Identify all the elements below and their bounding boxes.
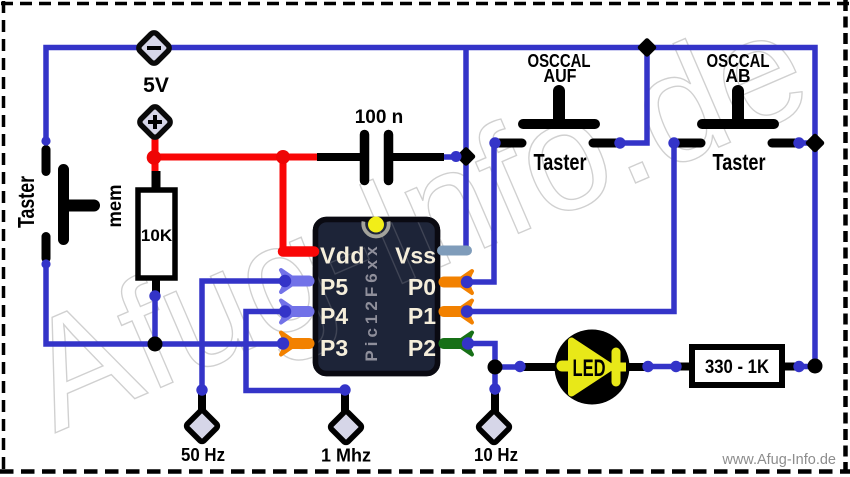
resistor R2 330-1K <box>676 347 801 385</box>
svg-text:330 - 1K: 330 - 1K <box>705 357 769 378</box>
wire end dot at pin P2 <box>462 337 474 349</box>
svg-text:mem: mem <box>105 185 126 228</box>
wire end dot at taster-mem top <box>41 136 50 145</box>
junction at 10K/P3/taster node <box>148 337 163 352</box>
wire end dot at pin P5 <box>279 275 291 287</box>
wire P2 to 10Hz node <box>468 344 495 391</box>
junction red at Vdd branch <box>276 150 290 164</box>
wire capacitor/Vss vertical <box>463 48 469 253</box>
pin stub Vss <box>442 246 467 256</box>
junction diamond right drop at OSCCAL AB <box>805 133 826 154</box>
node 1 Mhz connector <box>321 389 371 466</box>
svg-text:Taster: Taster <box>13 176 39 228</box>
LED D1 <box>521 330 650 405</box>
wire end dot at pin P0 <box>461 276 473 288</box>
svg-text:LED: LED <box>573 355 606 382</box>
resistor R1 10K <box>138 171 175 297</box>
wire node to LED anode <box>495 364 520 370</box>
wire taster-mem bottom to P3 <box>46 264 282 344</box>
pin arrow P0 <box>444 271 472 293</box>
pin arrow P1 <box>444 301 472 323</box>
IC U1 PIC12F6xx chip body <box>316 220 438 374</box>
wire end dot at AUF right contact <box>614 137 625 148</box>
wire R2 to right drop <box>799 364 815 370</box>
pin arrow P4 <box>281 301 309 323</box>
svg-text:P2: P2 <box>408 335 436 361</box>
svg-text:Pic12F6xx: Pic12F6xx <box>362 242 381 361</box>
wire end dot at pin P1 <box>461 305 473 317</box>
wire OSCCAL AB right contact to right drop <box>799 140 815 146</box>
wire top supply rail with left and right drops <box>46 48 815 367</box>
junction at R2/right drop <box>808 359 823 374</box>
wire end dot at LED anode <box>514 361 525 372</box>
wire end dot at 1Mhz node <box>339 384 350 395</box>
wire OSCCAL AUF right contact to rail junction <box>620 48 647 144</box>
wire P1 to OSCCAL AB left contact <box>466 143 674 312</box>
capacitor C1 100n <box>317 135 444 181</box>
node 10 Hz connector <box>474 387 518 465</box>
wire end dot at AB left contact <box>668 137 679 148</box>
wire P0 to OSCCAL AUF left contact <box>466 143 494 282</box>
wire end dot at AB right contact <box>793 137 804 148</box>
wire end dot at pin P3 <box>277 337 289 349</box>
switch S2 OSCCAL AUF taster <box>498 91 617 143</box>
svg-text:Vdd: Vdd <box>320 243 365 269</box>
pin arrow P5 <box>281 270 309 292</box>
switch S1 mem taster (left, vertical) <box>46 150 94 259</box>
junction red at 10K top <box>147 150 162 165</box>
wire 10K bottom <box>152 294 158 344</box>
svg-text:www.Afug-Info.de: www.Afug-Info.de <box>721 452 836 468</box>
wire end dot at 10Hz node <box>489 383 500 394</box>
wire end dot at taster-mem bottom <box>41 259 50 268</box>
wire end dot at R2 left <box>670 361 681 372</box>
wire end dot at AUF left contact <box>489 137 500 148</box>
svg-text:P3: P3 <box>320 335 348 361</box>
wire P5 to 50Hz node <box>202 281 287 390</box>
svg-text:1 Mhz: 1 Mhz <box>321 446 371 466</box>
svg-text:P4: P4 <box>320 303 348 329</box>
junction diamond at capacitor/Vss <box>456 146 477 167</box>
svg-text:Vss: Vss <box>395 243 436 269</box>
node 50 Hz connector <box>181 388 225 465</box>
wire capacitor right lead blue <box>443 154 462 160</box>
wire end dot at R1 bottom <box>149 290 160 301</box>
wire end dot at pin P4 <box>279 305 291 317</box>
switch S3 OSCCAL AB taster <box>677 91 796 143</box>
pin1 notch ring <box>363 222 388 237</box>
svg-text:10K: 10K <box>141 226 173 245</box>
wire end dot at 50Hz node <box>196 384 207 395</box>
svg-text:5V: 5V <box>143 74 169 97</box>
wire end dot at LED cathode <box>642 361 653 372</box>
svg-text:P1: P1 <box>408 303 436 329</box>
pin1 yellow index dot <box>368 217 384 233</box>
IC U1 chip body overlay <box>316 220 438 374</box>
svg-text:P0: P0 <box>408 274 436 300</box>
wire end dot at C1 right lead <box>451 151 462 162</box>
svg-text:Taster: Taster <box>534 149 587 175</box>
junction diamond on top rail <box>637 37 658 58</box>
supply symbol plus 5V <box>138 105 172 139</box>
supply symbol minus 5V <box>137 31 171 65</box>
svg-text:10 Hz: 10 Hz <box>474 445 518 465</box>
junction at P2/10Hz/LED node <box>488 360 503 375</box>
wire end dot at R2 right <box>793 361 804 372</box>
pin arrow P3 <box>281 333 309 355</box>
wire P4 to 1Mhz node <box>246 312 345 391</box>
svg-text:Taster: Taster <box>713 149 766 175</box>
wire 5V red supply net <box>152 132 317 252</box>
wire LED cathode to R2 <box>648 364 676 370</box>
svg-text:50 Hz: 50 Hz <box>181 445 225 465</box>
svg-text:P5: P5 <box>320 274 348 300</box>
pin arrow P2 <box>444 333 472 355</box>
svg-text:100 n: 100 n <box>355 107 404 128</box>
svg-text:AUF: AUF <box>544 66 577 86</box>
svg-text:AB: AB <box>726 66 751 86</box>
